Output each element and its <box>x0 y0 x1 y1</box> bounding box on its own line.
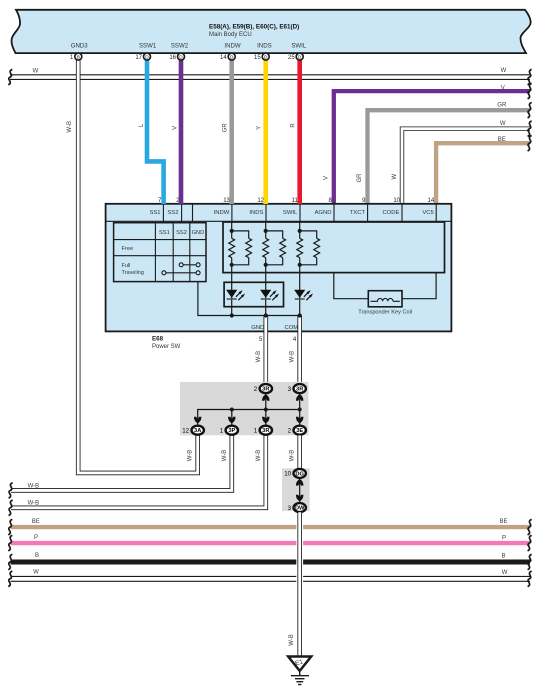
svg-text:V: V <box>501 85 505 91</box>
junction 3R pin 1 <box>260 426 272 435</box>
switch state table <box>114 223 206 282</box>
svg-text:W: W <box>33 69 39 75</box>
wire GND column to LED bus <box>198 282 232 316</box>
svg-text:GR: GR <box>497 102 507 108</box>
svg-text:W-B: W-B <box>188 450 194 462</box>
svg-text:W: W <box>501 68 507 74</box>
svg-text:W: W <box>392 173 398 179</box>
svg-text:COM: COM <box>284 325 298 331</box>
svg-text:W-B: W-B <box>67 121 73 133</box>
wire P bus <box>11 541 531 545</box>
svg-text:3: 3 <box>288 505 292 512</box>
svg-text:SS1: SS1 <box>159 230 170 236</box>
ground E1 <box>288 657 311 671</box>
arrow down <box>262 417 269 424</box>
svg-text:14: 14 <box>428 198 435 204</box>
svg-text:W-B: W-B <box>289 634 295 646</box>
svg-text:W: W <box>33 570 39 576</box>
wire BE to VC5 pin 14 <box>436 143 530 204</box>
wire R SWIL <box>297 59 302 204</box>
wire stubs into internals <box>163 221 165 223</box>
svg-text:SWIL: SWIL <box>291 42 307 49</box>
contact SS2-GND <box>183 264 196 266</box>
wire W-B 3E to junction 2 <box>297 435 302 468</box>
wire W-B left 1 (to 3P) <box>11 435 232 490</box>
junction bus <box>198 410 300 425</box>
ECU pin 15 D INDS <box>262 53 269 60</box>
svg-text:DG: DG <box>295 471 304 477</box>
junction 3R pin 3 <box>294 384 306 393</box>
wire B bus <box>11 560 531 565</box>
junction 3E pin 2 <box>294 426 306 435</box>
svg-text:D: D <box>298 54 302 59</box>
wire W bus top <box>10 74 530 76</box>
svg-text:10: 10 <box>284 471 291 478</box>
ECU pin 14 D INDW <box>228 53 235 60</box>
svg-text:E58(A), E59(B), E60(C), E61(D): E58(A), E59(B), E60(C), E61(D) <box>209 23 299 30</box>
arrow up into 3R pin 3 <box>296 394 303 401</box>
wire W-B to ground E1 <box>297 512 302 656</box>
svg-text:GR: GR <box>357 173 363 183</box>
svg-text:BE: BE <box>32 519 40 525</box>
svg-text:V: V <box>173 126 179 130</box>
wire W-B from GND pin 5 <box>263 316 268 384</box>
ECU pin 16 D SSW2 <box>178 53 185 60</box>
junction 3P pin 1 <box>226 426 238 435</box>
ECU pin 1 B GND3 <box>75 53 82 60</box>
svg-text:3R: 3R <box>262 387 269 393</box>
wire W-B GND3 to junction 3A <box>78 60 198 473</box>
svg-text:GND: GND <box>192 230 205 236</box>
svg-text:Main Body ECU: Main Body ECU <box>209 32 252 38</box>
arrow down <box>296 417 303 424</box>
LED D2 <box>260 290 271 298</box>
junction dot <box>264 408 268 412</box>
arrow down into DW pin 3 <box>296 495 303 502</box>
wire GR INDW <box>229 59 234 204</box>
junction connector block 2 <box>282 468 310 511</box>
svg-text:E68: E68 <box>152 335 164 342</box>
svg-text:SSW2: SSW2 <box>171 42 189 49</box>
svg-text:D: D <box>264 54 268 59</box>
svg-text:15: 15 <box>254 55 261 61</box>
svg-text:1: 1 <box>254 428 258 435</box>
svg-text:W: W <box>500 121 506 127</box>
svg-text:INDS: INDS <box>257 42 272 49</box>
arrow down <box>228 417 235 424</box>
svg-text:25: 25 <box>288 55 295 61</box>
junction dot <box>230 408 234 412</box>
contact SS1-GND <box>166 272 196 274</box>
svg-text:12: 12 <box>182 428 189 435</box>
svg-text:Transponder Key Coil: Transponder Key Coil <box>358 310 412 316</box>
junction dot LED bus <box>298 313 302 317</box>
svg-text:W-B: W-B <box>290 351 296 363</box>
wire L SSW1 to SS1 <box>147 59 164 204</box>
junction connector block 1 <box>180 382 309 435</box>
svg-text:INDW: INDW <box>214 210 230 216</box>
svg-text:2: 2 <box>288 428 292 435</box>
junction dot LED bus <box>230 313 234 317</box>
resistor pair at x=299.7 <box>299 222 301 238</box>
svg-text:Free: Free <box>122 246 134 252</box>
svg-text:GND: GND <box>251 325 264 331</box>
svg-text:W-B: W-B <box>28 501 40 507</box>
wire W-B left 2 (to 3R) <box>11 435 266 507</box>
wire GR to TXCT pin 9 <box>368 110 531 204</box>
junction dot LED bus <box>264 313 268 317</box>
junction 3R pin 2 <box>260 384 272 393</box>
resistor pair at x=231.7 <box>231 222 233 238</box>
svg-text:CODE: CODE <box>382 210 399 216</box>
crossing gap for E1 ground wire <box>296 520 303 586</box>
svg-text:3P: 3P <box>228 428 235 434</box>
svg-text:3A: 3A <box>194 428 201 434</box>
junction 3A pin 12 <box>192 426 204 435</box>
svg-text:GR: GR <box>222 123 228 133</box>
LED bus <box>232 315 300 317</box>
svg-text:B: B <box>35 553 39 559</box>
svg-text:P: P <box>502 536 506 542</box>
resistor pair at x=265.7 <box>265 222 267 238</box>
svg-text:SWIL: SWIL <box>283 210 298 216</box>
svg-text:17: 17 <box>135 55 142 61</box>
svg-text:3R: 3R <box>296 387 303 393</box>
ECU pin 17 D SSW1 <box>144 53 151 60</box>
svg-text:1: 1 <box>220 428 224 435</box>
svg-text:BE: BE <box>499 519 507 525</box>
svg-text:TXCT: TXCT <box>350 210 366 216</box>
svg-text:AGND: AGND <box>314 210 331 216</box>
arrow down <box>194 417 201 424</box>
arrow up into DG pin 10 <box>296 479 303 486</box>
wire V SSW2 to SS2 <box>179 59 184 204</box>
internal circuit block <box>223 222 445 273</box>
svg-text:Y: Y <box>256 126 262 130</box>
svg-text:Power SW: Power SW <box>152 344 181 350</box>
svg-text:INDS: INDS <box>249 210 263 216</box>
wire W to CODE pin 10 <box>402 129 530 204</box>
svg-text:Traveling: Traveling <box>122 270 144 276</box>
wire V to AGND pin 8 <box>334 91 530 204</box>
LED box <box>224 282 283 306</box>
junction DW pin 3 <box>294 503 306 512</box>
svg-text:W-B: W-B <box>290 450 296 462</box>
transponder key coil <box>368 291 402 307</box>
wires to transponder key coil <box>334 273 369 299</box>
arrow up into 3R pin 2 <box>262 394 269 401</box>
svg-text:16: 16 <box>169 55 176 61</box>
svg-text:SS1: SS1 <box>149 210 160 216</box>
svg-text:DW: DW <box>295 506 305 512</box>
svg-text:W-B: W-B <box>222 450 228 462</box>
svg-text:14: 14 <box>220 55 227 61</box>
svg-text:3: 3 <box>288 386 292 393</box>
svg-text:B: B <box>77 54 80 59</box>
svg-text:10: 10 <box>393 198 400 204</box>
svg-text:SS2: SS2 <box>176 230 187 236</box>
svg-text:3R: 3R <box>262 428 269 434</box>
wire Y INDS <box>263 59 268 204</box>
svg-text:SS2: SS2 <box>167 210 178 216</box>
LED D3 <box>294 290 305 298</box>
svg-text:P: P <box>34 535 38 541</box>
wire W bus bottom <box>11 575 531 577</box>
ECU banner E58/E59/E60/E61 Main Body ECU <box>12 10 531 53</box>
svg-text:D: D <box>230 54 234 59</box>
svg-text:INDW: INDW <box>224 42 240 49</box>
ECU pin 25 D SWIL <box>296 53 303 60</box>
LED D1 <box>226 290 237 298</box>
wire W-B from COM pin 4 <box>297 316 302 384</box>
svg-text:B: B <box>501 554 505 560</box>
svg-text:W: W <box>502 570 508 576</box>
wire BE bus bottom <box>11 525 531 529</box>
svg-text:2: 2 <box>254 386 258 393</box>
svg-text:3E: 3E <box>296 428 303 434</box>
pin cell strip <box>106 220 452 222</box>
svg-text:R: R <box>290 123 296 128</box>
svg-text:SSW1: SSW1 <box>139 42 157 49</box>
junction DG pin 10 <box>294 469 306 478</box>
svg-text:W-B: W-B <box>256 450 262 462</box>
svg-text:W-B: W-B <box>256 351 262 363</box>
svg-text:W-B: W-B <box>28 483 40 489</box>
svg-text:Full: Full <box>122 263 131 269</box>
svg-text:V: V <box>323 176 329 180</box>
component box E68 Power SW <box>106 204 452 332</box>
svg-text:GND3: GND3 <box>71 42 89 49</box>
svg-text:BE: BE <box>498 137 506 143</box>
svg-text:VC5: VC5 <box>422 210 434 216</box>
junction dot <box>298 408 302 412</box>
